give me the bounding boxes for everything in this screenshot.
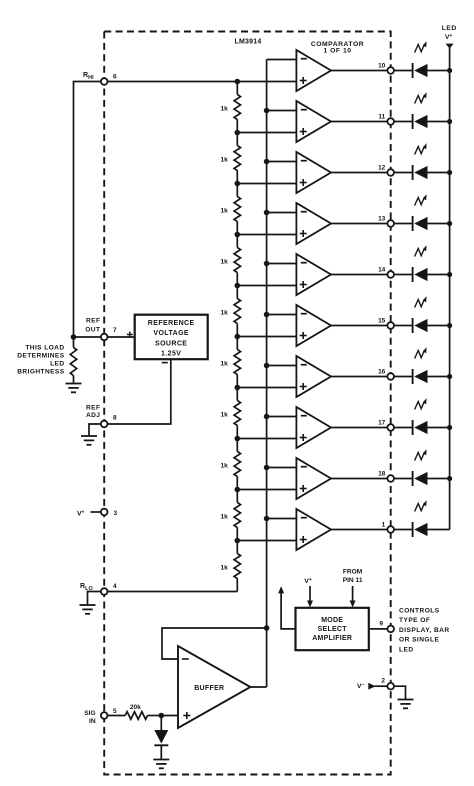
svg-text:1k: 1k bbox=[220, 156, 228, 163]
pin 3 V+ bbox=[101, 509, 118, 517]
pin 10 bbox=[378, 62, 394, 73]
label CONTROLS TYPE OF DISPLAY, BAR OR SINGLE LED bbox=[399, 607, 450, 653]
wire LED D1 to V+ rail bbox=[428, 70, 450, 72]
pin 8 REF ADJ bbox=[101, 415, 117, 428]
svg-text:THIS LOAD: THIS LOAD bbox=[25, 344, 64, 351]
svg-text:OUT: OUT bbox=[85, 326, 100, 333]
junction signal bus / U10 minus input bbox=[264, 516, 270, 522]
resistor R2 1k (ladder) bbox=[220, 133, 240, 184]
op-amp U2 comparator bbox=[296, 101, 331, 142]
resistor 20k (input) bbox=[125, 712, 147, 720]
wire pin 16 to LED D7 bbox=[394, 376, 413, 378]
wire ladder tap 4 to comparator U4 + input bbox=[237, 234, 296, 236]
resistor R9 1k (ladder) bbox=[220, 490, 240, 541]
svg-text:20k: 20k bbox=[130, 704, 141, 711]
svg-text:1k: 1k bbox=[220, 462, 228, 469]
wire LED D7 to V+ rail bbox=[428, 376, 450, 378]
label COMPARATOR 1 OF 10 bbox=[311, 41, 364, 54]
label REF OUT bbox=[85, 318, 100, 334]
LED D3 bbox=[413, 143, 428, 180]
wire pin 10 to LED D1 bbox=[394, 70, 413, 72]
op-amp U6 comparator bbox=[296, 305, 331, 346]
wire pin 18 to LED D9 bbox=[394, 478, 413, 480]
junction rail / LED D4 bbox=[447, 221, 452, 226]
wire V- to pin 2 bbox=[375, 685, 388, 687]
svg-text:1k: 1k bbox=[220, 105, 228, 112]
resistor R4 1k (ladder) bbox=[220, 235, 240, 286]
LED D4 bbox=[413, 194, 428, 231]
pin 11 bbox=[378, 113, 394, 124]
label REF ADJ bbox=[86, 404, 100, 419]
pin 14 bbox=[378, 266, 394, 278]
resistor R8 1k (ladder) bbox=[220, 439, 240, 490]
svg-text:LM3914: LM3914 bbox=[235, 38, 262, 45]
label THIS LOAD DETERMINES LED BRIGHTNESS bbox=[17, 344, 64, 375]
wire comparator U6 output to pin 15 bbox=[331, 325, 387, 327]
wire comparator U5 inverting input from signal bus bbox=[267, 263, 297, 265]
svg-text:PIN 11: PIN 11 bbox=[343, 577, 363, 584]
junction signal bus / U9 minus input bbox=[264, 465, 270, 471]
resistor R10 1k (ladder) bbox=[220, 541, 240, 592]
junction ladder tap 4 bbox=[235, 232, 241, 238]
wire 20k to buffer + bbox=[148, 715, 162, 717]
junction ladder tap 6 bbox=[235, 334, 241, 340]
wire pin 15 to LED D6 bbox=[394, 325, 413, 327]
wire pin 14 to LED D5 bbox=[394, 274, 413, 276]
op-amp U4 comparator bbox=[296, 203, 331, 244]
LED D10 bbox=[413, 500, 428, 537]
pin 7 REF OUT bbox=[101, 327, 117, 340]
label SIG IN bbox=[84, 710, 96, 725]
svg-text:VOLTAGE: VOLTAGE bbox=[153, 330, 189, 337]
wire pin 4 to ground bbox=[88, 592, 101, 605]
wire comparator U9 inverting input from signal bus bbox=[267, 467, 297, 469]
junction signal bus / U6 minus input bbox=[264, 312, 270, 318]
junction ladder tap 9 bbox=[235, 487, 241, 493]
junction ladder tap 7 bbox=[235, 385, 241, 391]
LED D8 bbox=[413, 398, 428, 435]
svg-text:LED: LED bbox=[50, 360, 64, 367]
pin 6 RHI bbox=[101, 73, 117, 84]
svg-text:8: 8 bbox=[113, 415, 117, 422]
pin 13 bbox=[378, 215, 394, 227]
pin 2 V- bbox=[381, 677, 394, 689]
load resistor (LED brightness) bbox=[70, 348, 76, 384]
svg-text:MODE: MODE bbox=[321, 617, 343, 624]
op-amp U10 comparator bbox=[296, 509, 331, 550]
wire LED D5 to V+ rail bbox=[428, 274, 450, 276]
svg-text:9: 9 bbox=[379, 620, 383, 627]
svg-text:1: 1 bbox=[382, 521, 386, 528]
wire pin 8 to ground bbox=[89, 424, 101, 436]
op-amp U3 comparator bbox=[296, 152, 331, 193]
svg-text:15: 15 bbox=[378, 317, 386, 324]
wire comparator U2 output to pin 11 bbox=[331, 121, 387, 123]
label FROM PIN 11 bbox=[343, 568, 363, 584]
junction rail / LED D9 bbox=[447, 476, 452, 481]
svg-text:16: 16 bbox=[378, 368, 386, 375]
op-amp U8 comparator bbox=[296, 407, 331, 448]
wire V+ stub to pin 3 bbox=[91, 511, 101, 513]
wire pin 6 to REF OUT node bbox=[74, 82, 101, 348]
junction rail / LED D3 bbox=[447, 170, 452, 175]
junction REF OUT / load resistor bbox=[71, 334, 77, 340]
wire ladder tap 3 to comparator U3 + input bbox=[237, 183, 296, 185]
LED D5 bbox=[413, 245, 428, 282]
junction ladder tap 1 bbox=[235, 79, 241, 85]
svg-text:CONTROLS: CONTROLS bbox=[399, 607, 440, 614]
svg-text:1k: 1k bbox=[220, 411, 228, 418]
wire buffer feedback (output to - input) bbox=[162, 628, 267, 659]
svg-text:1.25V: 1.25V bbox=[161, 350, 181, 357]
LED D6 bbox=[413, 296, 428, 333]
power terminal LED V+ (filled triangle) bbox=[446, 44, 454, 49]
wire pin 1 to LED D10 bbox=[394, 529, 413, 531]
svg-text:10: 10 bbox=[378, 62, 386, 69]
wire pin 7 to reference source + bbox=[108, 336, 135, 338]
wire ladder tap 2 to comparator U2 + input bbox=[237, 132, 296, 134]
wire ladder bottom corner bbox=[236, 591, 238, 593]
wire ladder tap 5 to comparator U5 + input bbox=[237, 285, 296, 287]
mode select amplifier block bbox=[296, 608, 369, 650]
wire comparator U6 inverting input from signal bus bbox=[267, 314, 297, 316]
svg-text:1k: 1k bbox=[220, 207, 228, 214]
svg-text:REFERENCE: REFERENCE bbox=[148, 320, 195, 327]
svg-text:AMPLIFIER: AMPLIFIER bbox=[312, 635, 352, 642]
pin 16 bbox=[378, 368, 394, 380]
op-amp U5 comparator bbox=[296, 254, 331, 295]
svg-text:12: 12 bbox=[378, 164, 386, 171]
junction signal bus / U7 minus input bbox=[264, 363, 270, 369]
wire signal bus (buffer output to comparator - inputs) bbox=[266, 60, 268, 688]
LED D2 bbox=[413, 92, 428, 129]
junction ladder tap 5 bbox=[235, 283, 241, 289]
wire comparator U5 output to pin 14 bbox=[331, 274, 387, 276]
junction ladder tap 8 bbox=[235, 436, 241, 442]
resistor R5 1k (ladder) bbox=[220, 286, 240, 337]
svg-text:FROM: FROM bbox=[343, 568, 363, 575]
op-amp U7 comparator bbox=[296, 356, 331, 397]
LED D7 bbox=[413, 347, 428, 384]
wire buffer + input bbox=[161, 715, 178, 717]
junction ladder tap 3 bbox=[235, 181, 241, 187]
resistor R1 1k (ladder) bbox=[220, 82, 240, 133]
junction rail / LED D6 bbox=[447, 323, 452, 328]
junction rail / LED D5 bbox=[447, 272, 452, 277]
wire pin 17 to LED D8 bbox=[394, 427, 413, 429]
reference voltage source block bbox=[135, 315, 208, 360]
arrow FROM PIN 11 into mode select bbox=[350, 586, 356, 607]
ground (RLO) bbox=[80, 605, 96, 614]
svg-text:1k: 1k bbox=[220, 513, 228, 520]
arrow V+ into mode select bbox=[307, 586, 313, 607]
junction rail / LED D2 bbox=[447, 119, 452, 124]
svg-text:TYPE OF: TYPE OF bbox=[399, 617, 430, 624]
wire pin 2 to ground bbox=[394, 686, 406, 699]
junction ladder tap 10 bbox=[235, 538, 241, 544]
svg-text:DETERMINES: DETERMINES bbox=[17, 352, 64, 359]
wire comparator U3 output to pin 12 bbox=[331, 172, 387, 174]
svg-text:SELECT: SELECT bbox=[318, 626, 348, 633]
wire comparator U4 output to pin 13 bbox=[331, 223, 387, 225]
svg-text:1k: 1k bbox=[220, 309, 228, 316]
junction signal bus / U3 minus input bbox=[264, 159, 270, 165]
svg-text:1k: 1k bbox=[220, 360, 228, 367]
op-amp U1 comparator bbox=[296, 50, 331, 91]
wire pin 13 to LED D4 bbox=[394, 223, 413, 225]
junction signal bus / U8 minus input bbox=[264, 414, 270, 420]
wire comparator U9 output to pin 18 bbox=[331, 478, 387, 480]
svg-text:REF: REF bbox=[86, 318, 100, 325]
svg-text:REF: REF bbox=[86, 404, 100, 411]
wire comparator U2 inverting input from signal bus bbox=[267, 110, 297, 112]
wire LED D2 to V+ rail bbox=[428, 121, 450, 123]
wire LED D10 to V+ rail bbox=[428, 529, 450, 531]
ground (V-) bbox=[398, 700, 414, 709]
op-amp buffer bbox=[178, 646, 250, 728]
wire LED D6 to V+ rail bbox=[428, 325, 450, 327]
junction signal bus / U2 minus input bbox=[264, 108, 270, 114]
resistor R7 1k (ladder) bbox=[220, 388, 240, 439]
protection diode D11 bbox=[154, 716, 168, 760]
junction rail / LED D8 bbox=[447, 425, 452, 430]
wire comparator U1 inverting input to signal bus (corner) bbox=[267, 59, 297, 61]
svg-text:IN: IN bbox=[89, 718, 96, 725]
svg-text:1 OF 10: 1 OF 10 bbox=[323, 48, 351, 55]
svg-text:LED: LED bbox=[442, 25, 457, 32]
wire pin 5 to 20k bbox=[108, 715, 126, 717]
svg-text:11: 11 bbox=[378, 113, 385, 120]
wire comparator U7 output to pin 16 bbox=[331, 376, 387, 378]
pin 9 MODE bbox=[379, 620, 394, 632]
pin 18 bbox=[378, 470, 394, 482]
pin 12 bbox=[378, 164, 394, 176]
wire buffer output to signal bus bbox=[250, 686, 266, 688]
pin 15 bbox=[378, 317, 394, 329]
wire comparator U4 inverting input from signal bus bbox=[267, 212, 297, 214]
pin 5 SIG IN bbox=[101, 708, 117, 719]
resistor R3 1k (ladder) bbox=[220, 184, 240, 235]
svg-text:BUFFER: BUFFER bbox=[194, 685, 224, 692]
resistor R6 1k (ladder) bbox=[220, 337, 240, 388]
ground (protection diode) bbox=[153, 760, 169, 769]
svg-text:14: 14 bbox=[378, 266, 386, 273]
ground (REF ADJ) bbox=[81, 436, 97, 445]
wire ladder tap 10 to comparator U10 + input bbox=[237, 540, 296, 542]
svg-text:5: 5 bbox=[113, 708, 117, 715]
label - (reference source negative) bbox=[162, 362, 168, 364]
wire comparator U1 output to pin 10 bbox=[331, 70, 387, 72]
svg-text:DISPLAY, BAR: DISPLAY, BAR bbox=[399, 627, 450, 634]
wire pin6 RHI to ladder top and comparator U1 + input bbox=[101, 81, 297, 83]
junction signal bus / U4 minus input bbox=[264, 210, 270, 216]
svg-text:SOURCE: SOURCE bbox=[155, 340, 187, 347]
wire pin 11 to LED D2 bbox=[394, 121, 413, 123]
junction rail / LED D1 bbox=[447, 68, 452, 73]
svg-text:1k: 1k bbox=[220, 564, 228, 571]
arrow V- terminal bbox=[368, 683, 375, 690]
svg-text:BRIGHTNESS: BRIGHTNESS bbox=[17, 368, 64, 375]
pin 1 bbox=[382, 521, 394, 533]
svg-text:3: 3 bbox=[114, 510, 118, 517]
op-amp U9 comparator bbox=[296, 458, 331, 499]
wire ladder tap 9 to comparator U9 + input bbox=[237, 489, 296, 491]
IC boundary dashed box (LM3914) bbox=[104, 32, 391, 775]
wire comparator U8 inverting input from signal bus bbox=[267, 416, 297, 418]
wire LED D3 to V+ rail bbox=[428, 172, 450, 174]
wire pin 4 to ladder bottom bbox=[108, 591, 238, 593]
node LED V+ label bbox=[442, 25, 457, 41]
svg-text:OR SINGLE: OR SINGLE bbox=[399, 637, 439, 644]
wire LED D8 to V+ rail bbox=[428, 427, 450, 429]
svg-text:2: 2 bbox=[381, 677, 385, 684]
wire ladder tap 6 to comparator U6 + input bbox=[237, 336, 296, 338]
svg-text:7: 7 bbox=[113, 327, 117, 334]
wire pin 7 to node bbox=[74, 336, 101, 338]
wire comparator U8 output to pin 17 bbox=[331, 427, 387, 429]
wire mode select to comparator outputs (up arrow) bbox=[278, 586, 295, 629]
junction rail / LED D7 bbox=[447, 374, 452, 379]
wire LED D9 to V+ rail bbox=[428, 478, 450, 480]
svg-text:13: 13 bbox=[378, 215, 386, 222]
svg-text:4: 4 bbox=[113, 583, 117, 590]
svg-text:LED: LED bbox=[399, 646, 414, 653]
LED D1 bbox=[413, 41, 428, 78]
wire comparator U10 inverting input from signal bus bbox=[267, 518, 297, 520]
junction ladder tap 2 bbox=[235, 130, 241, 136]
wire comparator U3 inverting input from signal bus bbox=[267, 161, 297, 163]
svg-text:17: 17 bbox=[378, 419, 386, 426]
pin 4 RLO bbox=[101, 583, 117, 595]
wire comparator U7 inverting input from signal bus bbox=[267, 365, 297, 367]
ground (load resistor) bbox=[66, 384, 82, 393]
svg-text:ADJ: ADJ bbox=[86, 412, 100, 419]
wire ladder tap 7 to comparator U7 + input bbox=[237, 387, 296, 389]
pin 17 bbox=[378, 419, 394, 431]
wire comparator U10 output to pin 1 bbox=[331, 529, 387, 531]
wire pin 12 to LED D3 bbox=[394, 172, 413, 174]
wire ladder tap 8 to comparator U8 + input bbox=[237, 438, 296, 440]
svg-text:6: 6 bbox=[113, 73, 117, 80]
junction signal bus / buffer feedback bbox=[264, 625, 270, 631]
wire reference source - to pin 8 bbox=[108, 359, 171, 425]
wire LED D4 to V+ rail bbox=[428, 223, 450, 225]
LED D9 bbox=[413, 449, 428, 486]
junction buffer + / protection diode bbox=[159, 713, 165, 719]
svg-text:SIG: SIG bbox=[84, 710, 95, 717]
wire mode select output to pin 9 bbox=[369, 628, 388, 630]
junction signal bus / U5 minus input bbox=[264, 261, 270, 267]
svg-text:1k: 1k bbox=[220, 258, 228, 265]
svg-text:18: 18 bbox=[378, 470, 386, 477]
wire LED anode rail (vertical) bbox=[449, 48, 451, 530]
label + (reference source positive) bbox=[127, 332, 133, 338]
